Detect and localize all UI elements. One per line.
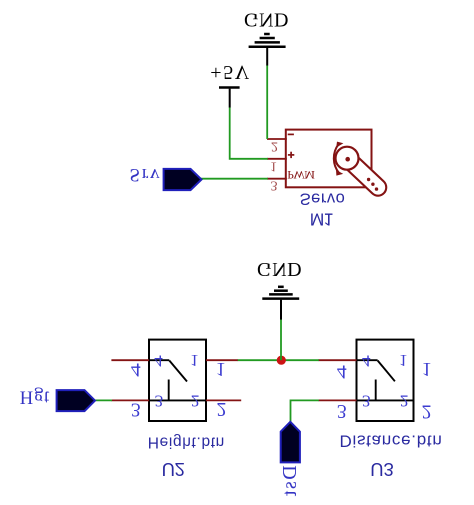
wire: Dst flag to U3 pin 2 [291,400,319,421]
pin 1 stub [206,359,238,361]
svg-text:Dst: Dst [279,465,301,496]
servo horn center dot [345,157,350,162]
svg-text:4: 4 [362,352,371,371]
switch contact line upper [149,399,206,401]
svg-text:GND: GND [244,9,289,31]
ground symbol (servo) [244,9,289,66]
net flag Dst [279,422,301,497]
pin 3 stub (PWM) [267,178,287,180]
svg-text:1: 1 [216,358,226,379]
svg-text:4: 4 [131,359,141,380]
rotation arrow arc [334,144,339,173]
svg-text:3: 3 [271,178,278,193]
wire: GND to servo pin 2 [266,65,268,139]
svg-text:1: 1 [422,358,432,379]
svg-text:2: 2 [271,139,278,154]
switch contact line lower [149,359,169,361]
net flag Hgt [20,386,95,411]
svg-text:1: 1 [399,351,408,370]
wire: Srv flag to servo pin 3 [201,178,268,180]
svg-text:Srv: Srv [130,164,161,185]
svg-text:4: 4 [337,361,347,382]
svg-text:+5V: +5V [210,61,250,83]
svg-text:2: 2 [217,398,227,419]
pin 2 stub (-) [267,138,287,140]
servo horn arm [350,161,379,188]
minus pin label [288,133,294,135]
power symbol +5V [210,61,250,107]
svg-text:2: 2 [400,391,409,410]
pushbutton U2 [111,340,241,480]
servo horn circle [336,147,359,170]
switch actuator [168,380,170,401]
svg-text:Height.btn: Height.btn [148,433,225,450]
svg-text:4: 4 [154,352,163,371]
plus pin label [288,154,294,156]
switch actuator [375,380,377,401]
switch contact line upper [357,399,414,401]
svg-text:3: 3 [362,391,371,410]
svg-text:3: 3 [337,400,347,421]
wire: Hgt flag to U2 pin 3 [95,399,113,401]
servo M1 [267,130,378,230]
ground symbol (buttons) [257,258,302,319]
svg-text:2: 2 [191,391,200,410]
pin 2 stub [318,399,356,401]
svg-text:Servo: Servo [300,189,345,207]
servo horn screw dots [367,178,370,181]
rotation arrowhead bottom [336,170,343,176]
svg-text:M1: M1 [310,210,334,230]
servo body box [286,130,372,188]
switch lever [378,361,395,382]
svg-text:Hgt: Hgt [20,386,50,406]
svg-text:U2: U2 [162,459,185,480]
svg-text:2: 2 [422,400,432,421]
rotation arrowhead top [336,142,343,148]
svg-text:1: 1 [270,158,277,173]
svg-text:PWM: PWM [287,168,315,182]
junction node [277,356,286,365]
svg-text:3: 3 [155,391,164,410]
pin 4 stub [111,359,149,361]
switch lever [169,361,187,382]
svg-text:3: 3 [131,398,141,419]
switch contact line lower [357,359,378,361]
pushbutton U3 [318,340,441,480]
svg-text:Distance.btn: Distance.btn [340,432,442,451]
pin 2 stub [206,399,241,401]
svg-text:GND: GND [257,258,302,280]
net flag Srv [130,164,202,190]
wire: junction to ground [280,319,282,360]
svg-text:1: 1 [190,351,199,370]
pin 3 stub [111,399,149,401]
wire: U2 pin 1 to junction to U3 pin 1 [238,359,319,361]
wire: +5V to servo pin 1 [230,107,268,159]
svg-text:U3: U3 [370,459,394,480]
pin 1 stub [318,359,356,361]
pin 1 stub (+) [267,158,287,160]
